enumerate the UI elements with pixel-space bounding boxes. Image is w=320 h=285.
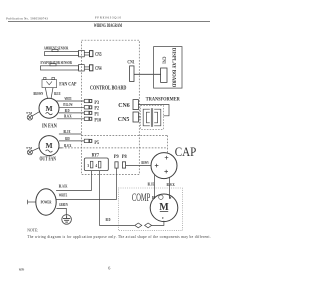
fan capacitor FAN CAP: [42, 77, 57, 87]
relay RY7: [84, 158, 108, 171]
svg-text:TRANSFORMER: TRANSFORMER: [146, 97, 180, 103]
svg-text:3: 3: [87, 164, 89, 168]
svg-text:POWER: POWER: [41, 200, 52, 205]
svg-text:4: 4: [95, 164, 97, 168]
svg-text:CN5: CN5: [118, 117, 130, 123]
power lead: [28, 201, 36, 203]
svg-text:T'M: T'M: [26, 111, 32, 115]
svg-text:BROWN: BROWN: [34, 92, 44, 96]
terminal P8: [122, 162, 125, 168]
svg-text:R: R: [152, 195, 156, 200]
motor COMP: [150, 194, 178, 222]
motor IN FAN: [39, 98, 59, 118]
header rule: [8, 21, 210, 23]
svg-text:BLUE: BLUE: [54, 92, 61, 96]
svg-text:BLUE: BLUE: [64, 130, 71, 134]
svg-text:T'M: T'M: [26, 146, 32, 150]
wire CN6 to transformer: [138, 105, 169, 116]
svg-text:CN4: CN4: [95, 66, 101, 72]
wire blue cap to comp: [154, 175, 156, 198]
terminal P5: [84, 139, 92, 142]
transformer T1: [143, 108, 161, 127]
svg-text:IN FAN: IN FAN: [42, 123, 57, 129]
svg-text:WHITE: WHITE: [59, 194, 68, 198]
svg-text:R07B: R07B: [19, 268, 25, 271]
terminal P2: [84, 106, 92, 109]
ambient sensor: [45, 49, 93, 56]
svg-text:NOTE:: NOTE:: [27, 229, 38, 233]
motor OUT FAN: [39, 136, 59, 156]
svg-text:c: c: [162, 215, 164, 220]
svg-text:M: M: [45, 104, 52, 113]
svg-text:M: M: [159, 202, 169, 213]
svg-text:WIRING DIAGRAM: WIRING DIAGRAM: [94, 23, 122, 29]
svg-text:CN1: CN1: [161, 57, 167, 64]
cap terminal marks: [155, 156, 169, 174]
wire black cap to comp: [168, 177, 170, 198]
svg-text:BLUE: BLUE: [148, 182, 155, 186]
display board connector CN1: [161, 68, 167, 82]
transformer dashed box: [141, 106, 164, 130]
svg-text:CN1: CN1: [127, 60, 134, 66]
wire red: [59, 112, 85, 114]
svg-text:RED: RED: [65, 109, 70, 113]
svg-text:RED: RED: [65, 137, 70, 141]
connector CN1: [130, 66, 134, 82]
terminal P9: [115, 162, 118, 168]
svg-text:RED: RED: [106, 218, 111, 222]
svg-text:P8: P8: [122, 154, 127, 160]
connector CN5: [133, 112, 138, 122]
svg-text:BLACK: BLACK: [64, 115, 72, 119]
svg-text:M: M: [45, 141, 52, 150]
svg-text:EVAPORATOR SENSOR: EVAPORATOR SENSOR: [41, 60, 73, 65]
connector CN6: [133, 100, 138, 110]
display board box: [154, 47, 182, 89]
dashed boundary line lower: [59, 147, 168, 149]
terminal P10: [84, 117, 92, 120]
svg-text:YELLOW: YELLOW: [63, 103, 73, 107]
thermal protector in fan: [27, 112, 39, 121]
wire black: [57, 118, 85, 120]
wire black out fan: [59, 147, 62, 149]
svg-text:BLACK: BLACK: [59, 184, 68, 188]
svg-text:CN6: CN6: [118, 103, 130, 109]
wire fan cap to motor blue: [51, 88, 53, 99]
svg-text:FAN CAP: FAN CAP: [59, 81, 77, 87]
svg-text:FFRE0633Q10: FFRE0633Q10: [95, 15, 122, 19]
wire black power to relay: [56, 171, 91, 191]
svg-text:P1: P1: [94, 111, 99, 117]
dashed boundary vertical: [167, 135, 169, 152]
svg-text:CONTROL BOARD: CONTROL BOARD: [90, 84, 127, 91]
svg-text:CAP: CAP: [175, 144, 197, 159]
wire fan cap to motor brown: [45, 88, 47, 99]
wire red out fan: [59, 140, 84, 142]
ground: [62, 215, 72, 225]
wire white power to P9: [56, 168, 116, 199]
terminal P1: [84, 111, 92, 114]
svg-text:DISPLAY BOARD: DISPLAY BOARD: [171, 48, 177, 88]
evaporator sensor: [41, 64, 93, 71]
relay terminal 4: [98, 161, 101, 168]
wire green power to ground: [56, 208, 66, 215]
svg-text:The wiring diagram is for appl: The wiring diagram is for application pu…: [27, 235, 211, 239]
svg-text:BLACK: BLACK: [167, 183, 175, 187]
svg-text:P9: P9: [114, 154, 119, 160]
svg-text:6: 6: [108, 266, 110, 271]
wire CN5 to transformer: [138, 116, 140, 118]
wire CN1 to display board: [134, 73, 161, 75]
compressor dotted box: [118, 188, 182, 231]
svg-text:GREEN: GREEN: [59, 203, 68, 207]
svg-text:BROWN: BROWN: [141, 161, 148, 165]
svg-text:COMP: COMP: [132, 192, 150, 204]
svg-text:P5: P5: [94, 140, 99, 146]
wire white: [57, 100, 85, 102]
control board dashed outline: [82, 40, 140, 174]
wire brown to cap: [126, 165, 152, 167]
svg-text:OUT FAN: OUT FAN: [40, 157, 57, 163]
dashed divider line: [82, 134, 168, 136]
wire blue out fan: [59, 133, 82, 135]
svg-text:P10: P10: [94, 117, 101, 123]
thermal protector out fan: [27, 148, 39, 155]
capacitor CAP: [151, 153, 177, 179]
wire yellow: [59, 106, 85, 108]
svg-text:CN3: CN3: [95, 52, 101, 58]
power plug POWER: [36, 189, 56, 215]
svg-text:Publication No. 5995580743: Publication No. 5995580743: [6, 17, 48, 21]
terminal P3: [84, 99, 92, 102]
svg-text:BLACK: BLACK: [64, 144, 72, 148]
relay terminal 3: [90, 161, 93, 168]
overload protector: [135, 223, 152, 228]
svg-text:WHITE: WHITE: [65, 97, 72, 101]
wire red relay to comp: [100, 171, 164, 226]
